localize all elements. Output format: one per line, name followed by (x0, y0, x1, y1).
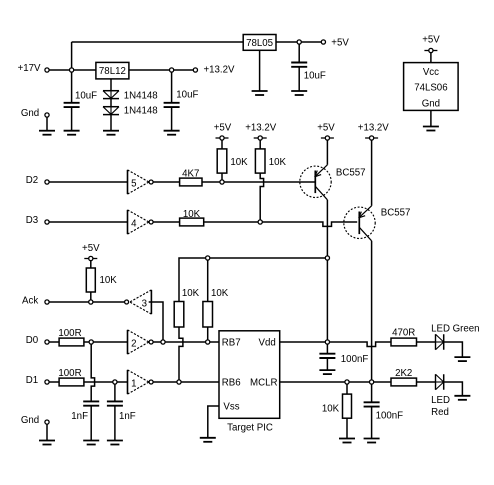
svg-text:2: 2 (131, 339, 136, 350)
wire gate 4 to R4 (153, 221, 180, 223)
wire +5V flag to R1 (221, 140, 223, 149)
wire 78L05 output (276, 41, 297, 43)
wire bottom Gnd terminal down (46, 424, 48, 440)
terminal D3 (26, 215, 49, 226)
svg-text:+5V: +5V (317, 123, 335, 134)
capacitor C7 100nF (364, 402, 404, 421)
terminal +5V (Q1 rail) (317, 123, 335, 141)
inverter gate 3 (output left) (125, 290, 152, 314)
svg-text:+17V: +17V (18, 63, 41, 74)
svg-text:4: 4 (131, 219, 137, 230)
svg-text:470R: 470R (392, 328, 415, 339)
svg-text:4K7: 4K7 (182, 169, 199, 180)
node A (17V junction) (70, 68, 74, 72)
wire R6 to node K (207, 327, 209, 340)
wire 78L12 output (129, 69, 170, 71)
ground 74LS06 (423, 127, 439, 131)
wire Vss to ground (208, 406, 219, 438)
pin label Vss (223, 402, 239, 413)
diode D5 1N4148 (103, 90, 158, 101)
wire gate 2 to node I (153, 341, 161, 343)
wire R8 to node J (84, 341, 89, 343)
svg-text:D2: D2 (26, 175, 38, 186)
wire node L to gate 1 (117, 381, 130, 383)
capacitor C3 10uF (291, 63, 326, 82)
node P (MCLR/R11 junction) (345, 380, 349, 384)
inverter gate 5 (128, 170, 154, 194)
wire +13.2V flag to R2 (259, 140, 261, 149)
resistor R6 10K (203, 288, 229, 327)
wire between diodes (110, 99, 112, 107)
wire node L down to C5 (114, 384, 116, 401)
ground bottom Gnd terminal (39, 441, 55, 445)
wire gate 5 to R3 (153, 181, 180, 183)
svg-text:BC557: BC557 (381, 208, 411, 219)
terminal Ack (22, 296, 49, 307)
svg-text:+5V: +5V (82, 243, 100, 254)
LED1 green (431, 323, 479, 349)
wire R4 to node E (204, 221, 258, 223)
capacitor C4 1nF (71, 401, 99, 422)
svg-text:100R: 100R (58, 368, 81, 379)
wire +5V flag to Q1 emitter rail (326, 140, 328, 165)
wire 74LS06 gnd (430, 110, 432, 126)
svg-text:Target PIC: Target PIC (227, 423, 273, 434)
inverter gate 2 (128, 330, 154, 354)
svg-text:D3: D3 (26, 215, 38, 226)
ground C6 (319, 370, 335, 374)
IC U1 74LS06 (404, 63, 459, 111)
wire C4 to ground (90, 406, 92, 441)
wire node N to R10 with hop under Q2 rail (330, 342, 392, 347)
wire to +5V terminal (301, 41, 321, 43)
wire node P to node Q (349, 381, 369, 383)
svg-text:Vdd: Vdd (259, 338, 276, 349)
wire Q1 collector rail down (326, 200, 328, 256)
wire MCLR pin to node P (280, 381, 345, 383)
terminal +17V (18, 63, 50, 74)
ground LED2 (454, 396, 470, 400)
terminal +5V (Ack pullup) (82, 243, 100, 261)
wire Q2 collector rail down (371, 241, 373, 380)
wire R5 lead hops over D0 wire (179, 327, 183, 380)
svg-text:10uF: 10uF (304, 70, 326, 81)
svg-text:+13.2V: +13.2V (358, 123, 390, 134)
node G (R6 top) (206, 256, 210, 260)
transistor Q2 BC557 (344, 206, 411, 241)
node Q (MCLR/Q2 junction) (370, 380, 374, 384)
resistor R3 4K7 (180, 169, 202, 186)
svg-text:100nF: 100nF (341, 354, 369, 365)
resistor R12 2K2 (391, 368, 417, 386)
wire node I to node K (165, 341, 206, 343)
terminal Gnd (top) (21, 108, 49, 119)
wire R10 to LED1 (417, 341, 436, 343)
wire node J to gate 2 (93, 341, 130, 343)
terminal D2 (26, 175, 49, 186)
wire R9 to node L (84, 381, 113, 383)
regulator 78L05 (243, 35, 276, 51)
wire diodes to ground (110, 115, 112, 131)
wire 17V junction down to C1 (71, 72, 73, 103)
wire 78L12 gnd pin (110, 79, 112, 91)
svg-text:100nF: 100nF (376, 411, 404, 422)
wire node N down to C6 (326, 344, 328, 354)
wire R1 to node D (221, 173, 223, 180)
svg-text:1nF: 1nF (71, 411, 88, 422)
svg-text:10K: 10K (230, 157, 248, 168)
LED2 red (431, 374, 450, 418)
wire pullup bus (179, 258, 325, 302)
wire gate 1 to node M (153, 381, 177, 383)
terminal +13.2V (Q2 rail) (358, 123, 390, 141)
wire gate 3 input down to node I (149, 302, 163, 340)
svg-text:BC557: BC557 (336, 168, 366, 179)
terminal D0 (26, 335, 49, 346)
svg-text:MCLR: MCLR (250, 378, 277, 389)
wire R11 to ground (346, 418, 348, 438)
node C (+5V junction) (297, 40, 301, 44)
inverter gate 4 (128, 210, 154, 234)
svg-text:Ack: Ack (22, 296, 38, 307)
svg-text:+5V: +5V (331, 38, 349, 49)
wire LED2 to ground (444, 382, 463, 396)
svg-text:Gnd: Gnd (21, 108, 39, 119)
svg-text:78L12: 78L12 (99, 66, 126, 77)
ground C3 (291, 91, 307, 95)
wire node Q to R12 (374, 381, 391, 383)
capacitor C6 100nF (319, 354, 368, 365)
pin label RB7 (222, 338, 241, 349)
ground R11 (339, 439, 355, 443)
wire +5V flag to R7 (90, 261, 92, 268)
wire D1 to R9 (49, 381, 59, 383)
node D (D2/R1 junction) (220, 180, 224, 184)
resistor R2 10K (255, 149, 286, 173)
svg-text:D1: D1 (26, 375, 38, 386)
wire C3 to ground (298, 67, 300, 91)
ground Gnd terminal (39, 131, 55, 135)
transistor Q1 BC557 (300, 165, 366, 200)
ground Vss (200, 438, 216, 442)
svg-text:2K2: 2K2 (395, 368, 412, 379)
terminal +13.2V (R2 pullup) (245, 123, 277, 141)
svg-text:RB6: RB6 (222, 378, 241, 389)
wire C2 to ground (171, 107, 173, 131)
ground C4 (83, 441, 99, 445)
node H (Ack junction) (89, 300, 93, 304)
svg-text:1nF: 1nF (119, 411, 136, 422)
resistor R11 10K (322, 394, 352, 418)
node K (R6 bottom junction) (206, 340, 210, 344)
svg-text:RB7: RB7 (222, 338, 241, 349)
node E (D3/R2 junction) (258, 220, 262, 224)
resistor R7 10K (86, 268, 117, 292)
svg-text:+13.2V: +13.2V (204, 65, 236, 76)
diode D6 1N4148 (103, 105, 158, 116)
wire node C down to C3 (298, 44, 300, 62)
wire R3 to node D (202, 181, 220, 183)
svg-text:Red: Red (431, 407, 449, 418)
wire R12 to LED2 (417, 381, 436, 383)
wire node J down hops over D1 wire (91, 344, 94, 401)
svg-text:1: 1 (131, 379, 136, 390)
wire R6 top lead (207, 260, 209, 301)
wire node M to RB6 pin (181, 381, 219, 383)
svg-text:74LS06: 74LS06 (414, 83, 447, 94)
resistor R1 10K (217, 149, 248, 173)
svg-text:10K: 10K (100, 275, 118, 286)
terminal +5V (74LS06) (422, 35, 440, 53)
wire D0 to R8 (49, 341, 59, 343)
wire node H to gate 3 (93, 301, 125, 303)
pin label RB6 (222, 378, 241, 389)
wire node K to RB7 pin (210, 341, 219, 343)
terminal Gnd (bottom) (21, 415, 49, 426)
svg-text:10K: 10K (211, 288, 229, 299)
svg-text:+5V: +5V (422, 35, 440, 46)
resistor R8 100R (58, 328, 83, 346)
svg-text:Vss: Vss (223, 402, 239, 413)
svg-text:+5V: +5V (214, 123, 232, 134)
ground LED1 (454, 357, 470, 361)
svg-text:5: 5 (131, 179, 136, 190)
resistor R9 100R (58, 368, 83, 386)
wire D3 to gate 4 (49, 221, 130, 223)
svg-text:LED: LED (431, 395, 450, 406)
svg-text:1N4148: 1N4148 (124, 90, 158, 101)
svg-text:10K: 10K (269, 157, 287, 168)
wire 17V junction up to top rail (71, 42, 73, 68)
pin label MCLR (250, 378, 277, 389)
capacitor C5 1nF (107, 401, 136, 422)
wire +5V to 74LS06 (430, 53, 432, 63)
wire node E to Q2 base with hop under Q1 rail (262, 222, 357, 226)
ground C1 (64, 131, 80, 135)
svg-text:10uF: 10uF (75, 90, 97, 101)
wire node Q down to C7 (371, 384, 373, 402)
ground C5 (107, 441, 123, 445)
wire LED1 to ground (444, 342, 463, 357)
wire Gnd terminal down (46, 117, 48, 131)
capacitor C1 10uF (64, 90, 98, 107)
ground C2 (164, 131, 180, 135)
svg-text:78L05: 78L05 (246, 38, 273, 49)
wire C6 to ground (326, 358, 328, 370)
wire R7 to node H (90, 292, 92, 300)
wire R2 lead hops over D2 wire (260, 173, 263, 220)
node M (R5 bottom junction) (177, 380, 181, 384)
wire C1 to ground (71, 107, 73, 131)
terminal +5V (R1 pullup) (214, 123, 232, 141)
node F (pullup bus / Q1 rail) (325, 256, 329, 260)
ground diodes (103, 131, 119, 135)
resistor R10 470R (391, 328, 417, 346)
wire D2 to gate 5 (49, 181, 130, 183)
wire 17V junction to 78L12 (74, 69, 96, 71)
capacitor C2 10uF (164, 90, 199, 108)
wire 78L05 gnd pin (259, 50, 261, 91)
wire +17V input (49, 69, 69, 71)
wire Vdd pin to node N (280, 341, 326, 343)
terminal +13.2V (193, 65, 235, 76)
inverter gate 1 (128, 370, 154, 394)
svg-text:10K: 10K (182, 288, 200, 299)
svg-text:100R: 100R (58, 328, 81, 339)
svg-text:Gnd: Gnd (21, 415, 39, 426)
svg-text:10uF: 10uF (176, 90, 198, 101)
ground 78L05 (252, 91, 268, 95)
wire +13.2V flag to Q2 emitter rail (371, 140, 373, 206)
svg-text:1N4148: 1N4148 (124, 105, 158, 116)
node N (Vdd junction) (325, 340, 329, 344)
svg-text:+13.2V: +13.2V (245, 123, 277, 134)
terminal +5V (top) (321, 38, 349, 49)
svg-text:10K: 10K (322, 403, 340, 414)
svg-text:D0: D0 (26, 335, 39, 346)
ground C7 (364, 439, 380, 443)
node J (D0 junction) (89, 340, 93, 344)
resistor R4 10K (180, 209, 204, 226)
wire C7 to ground (371, 407, 373, 439)
IC U2 Target PIC (219, 331, 280, 434)
wire node B down to C2 (171, 72, 173, 103)
svg-text:3: 3 (142, 299, 147, 310)
pin label Vdd (259, 338, 276, 349)
svg-text:Vcc: Vcc (423, 67, 439, 78)
wire to +13.2V terminal (174, 69, 194, 71)
resistor R5 10K (174, 288, 199, 327)
wire top rail to 78L05 (72, 41, 244, 43)
wire C5 to ground (114, 406, 116, 441)
wire node P down to R11 (346, 384, 348, 394)
node I (gate2/gate3 junction) (161, 340, 165, 344)
regulator 78L12 (96, 62, 129, 79)
wire Q1 rail to Vdd node (326, 260, 328, 340)
terminal D1 (26, 375, 49, 386)
svg-text:LED Green: LED Green (431, 323, 479, 334)
wire node D to Q1 base (224, 181, 315, 183)
node L (D1/C5 junction) (113, 380, 117, 384)
svg-text:Gnd: Gnd (422, 99, 440, 110)
svg-text:10K: 10K (183, 209, 201, 220)
node B (+13.2V junction) (170, 68, 174, 72)
wire Ack to node H (49, 301, 89, 303)
